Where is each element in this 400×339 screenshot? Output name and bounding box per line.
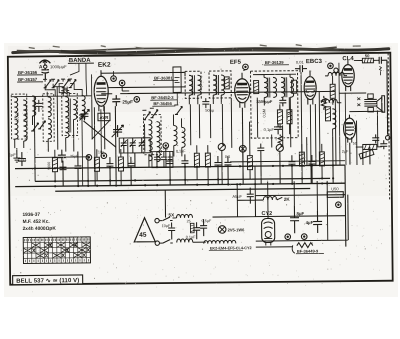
top right decoupling cap xyxy=(378,57,387,76)
tuning gang capacitor 1 xyxy=(79,109,89,120)
svg-text:0,1µF: 0,1µF xyxy=(186,235,197,239)
output transformer xyxy=(357,94,377,112)
vertical wire osc x145 xyxy=(145,124,166,168)
label CL4 xyxy=(342,56,354,62)
vertical wire x345 power xyxy=(344,165,347,246)
vertical wires det to bus xyxy=(282,97,291,147)
speaker field resistor zigzag bottom xyxy=(292,242,324,253)
resistor row b xyxy=(94,149,99,181)
svg-text:BF-36456: BF-36456 xyxy=(153,101,172,106)
svg-text:10µ: 10µ xyxy=(98,150,105,154)
svg-text:2V5-1W6: 2V5-1W6 xyxy=(228,227,246,232)
cap left of pot xyxy=(257,144,264,185)
bus rail top xyxy=(15,165,345,168)
vertical wire x88 xyxy=(87,155,89,185)
oscillator switch contacts xyxy=(142,105,182,120)
cap row c xyxy=(106,157,113,186)
resistor 1M row xyxy=(118,149,123,186)
svg-text:50: 50 xyxy=(365,53,370,58)
vertical wires IFT1 down xyxy=(190,104,222,145)
wire junction dots xyxy=(34,164,334,187)
osc tracking caps cluster xyxy=(152,151,173,167)
wire grid cap to band switch xyxy=(91,71,113,99)
svg-text:5000: 5000 xyxy=(47,162,51,170)
tube EF5 xyxy=(234,69,249,108)
wire banda label down xyxy=(70,63,87,96)
svg-text:EF5: EF5 xyxy=(230,60,242,66)
terminal mid row xyxy=(86,155,92,161)
svg-text:0,02: 0,02 xyxy=(24,113,28,120)
antenna coil box 2 (dashed) xyxy=(43,94,55,152)
dial lamp xyxy=(218,225,245,233)
svg-text:25µF: 25µF xyxy=(70,154,79,158)
line choke bottom xyxy=(177,239,206,243)
RF coupling coil right xyxy=(79,95,86,186)
mains triangle plug xyxy=(134,218,155,242)
resistor 5000 xyxy=(47,150,58,182)
cap between IF cans xyxy=(202,98,209,108)
svg-text:0,3: 0,3 xyxy=(163,147,168,151)
filter cap 8µF xyxy=(290,205,305,233)
interstage choke pair xyxy=(321,99,341,103)
svg-text:1µF: 1µF xyxy=(9,152,17,157)
svg-text:⊙1: ⊙1 xyxy=(21,157,27,162)
osc anode resistor xyxy=(194,145,199,180)
EBC3 grid cap terminal xyxy=(328,63,334,69)
svg-text:50µµ: 50µµ xyxy=(205,109,214,113)
label BF-36139 xyxy=(264,60,289,65)
resistor row j xyxy=(299,144,304,184)
oscillator padder trimmer xyxy=(173,67,181,105)
antenna A terminal xyxy=(39,60,51,70)
line filter cap 2 xyxy=(186,222,201,239)
cap 0.45µF xyxy=(232,188,254,204)
band switch wafer 1 xyxy=(43,79,59,88)
wire EK2 top xyxy=(101,72,185,77)
grid leak resistor CL4 xyxy=(321,96,326,110)
svg-text:25: 25 xyxy=(187,219,191,223)
node AVC xyxy=(134,97,140,103)
row top wire segments xyxy=(35,154,345,164)
long vertical wires EBC3-CL4 xyxy=(339,63,346,166)
tube tuning indicator xyxy=(343,115,355,143)
cap row i xyxy=(288,155,295,184)
svg-text:0,002: 0,002 xyxy=(14,111,19,122)
cap 25µF row xyxy=(70,151,82,186)
antenna coil box 1 (dashed) xyxy=(11,94,27,148)
wire screen rail xyxy=(101,91,335,93)
mains switch bottom xyxy=(159,239,172,243)
label BF-36456 xyxy=(152,101,175,106)
long vertical wires tuner to bus xyxy=(34,96,46,182)
wire pot down xyxy=(279,152,281,183)
tube EBC3 xyxy=(304,70,316,104)
svg-text:EK2: EK2 xyxy=(98,62,111,69)
padder capacitor left xyxy=(9,152,26,166)
switch routing wires xyxy=(45,83,82,96)
EK2 grid cap terminal xyxy=(111,76,117,82)
svg-text:0,1: 0,1 xyxy=(225,155,230,159)
cap row k xyxy=(308,155,315,184)
diode load resistor 2 xyxy=(287,110,292,124)
EF5 grid cap terminal xyxy=(243,64,249,70)
wire EK2 plate rail xyxy=(108,86,185,89)
svg-text:4µF: 4µF xyxy=(306,220,314,225)
svg-text:BELL 537 ∿ ≃ (110 V): BELL 537 ∿ ≃ (110 V) xyxy=(16,278,79,285)
bypass caps right cluster xyxy=(372,134,387,149)
antenna series capacitor 100µµF xyxy=(41,64,67,79)
cap 0.1µF row f xyxy=(176,149,189,185)
bus rail chassis xyxy=(15,183,345,186)
cap row d xyxy=(127,157,134,186)
tube CL4 xyxy=(342,60,355,91)
cap row h xyxy=(224,156,231,185)
svg-text:8µF: 8µF xyxy=(296,211,304,216)
svg-text:CY2: CY2 xyxy=(261,211,272,217)
power box outline xyxy=(165,188,348,248)
vertical wire x68 xyxy=(66,87,68,96)
label EF5 xyxy=(230,60,242,66)
scan speckle noise xyxy=(11,44,391,292)
svg-text:BF-36157: BF-36157 xyxy=(18,77,38,82)
heater chain winding xyxy=(204,240,252,250)
small terminal beside xyxy=(334,68,338,72)
dial cord diagonal 2 xyxy=(92,121,110,140)
mains terminal top xyxy=(155,218,159,222)
label BF-36156 xyxy=(17,70,43,75)
tube EK2 xyxy=(94,70,108,111)
svg-text:2µF: 2µF xyxy=(342,150,349,154)
terminal under 4µF xyxy=(301,234,307,240)
vertical wire x58 xyxy=(56,87,59,150)
svg-text:M.F. 452 Kc.: M.F. 452 Kc. xyxy=(23,219,50,225)
extra vertical wires right section xyxy=(92,71,379,242)
wire EF5 cathode down xyxy=(241,108,244,184)
vertical wires power xyxy=(268,181,318,219)
label EBC3 xyxy=(306,59,323,65)
wires under IFT2 xyxy=(264,97,289,134)
svg-text:BF-36449-9: BF-36449-9 xyxy=(297,248,319,253)
terminal circle right xyxy=(385,136,389,140)
tone resistor diagonal xyxy=(359,150,374,159)
band switch wafer 2 xyxy=(61,79,76,88)
mid coil unboxed xyxy=(31,96,46,131)
resistor 25 in filter xyxy=(187,219,195,233)
mains terminal bottom xyxy=(155,241,159,245)
speaker xyxy=(377,96,385,113)
svg-text:BF-36452-3: BF-36452-3 xyxy=(151,95,174,100)
svg-text:BF-36139: BF-36139 xyxy=(265,60,284,65)
trimmer box row xyxy=(119,138,150,168)
cap EF5 cathode xyxy=(279,97,286,106)
wire IFT2 tops xyxy=(253,74,296,77)
node dot below gang xyxy=(101,153,107,159)
label BF-36381 xyxy=(153,75,178,80)
cap row g xyxy=(214,156,221,185)
line filter cap 1 xyxy=(162,222,176,239)
rectifier CY2 xyxy=(262,218,275,245)
terminal below EF5 xyxy=(239,145,246,152)
bus rail heater xyxy=(55,189,310,192)
line choke top xyxy=(172,214,192,218)
svg-text:0,1µF: 0,1µF xyxy=(264,127,275,132)
detector dashed enclosure xyxy=(250,71,298,138)
svg-text:2K: 2K xyxy=(284,197,291,202)
label EK2 xyxy=(98,62,111,69)
resistor 2K zigzag xyxy=(263,196,290,202)
series resistor zigzag xyxy=(278,134,283,144)
svg-text:1936-37: 1936-37 xyxy=(22,212,40,218)
svg-text:5X: 5X xyxy=(168,212,175,217)
filter cap 4µF xyxy=(305,211,322,233)
svg-text:1M: 1M xyxy=(287,112,291,117)
svg-text:0,01: 0,01 xyxy=(296,60,305,65)
label BANDA xyxy=(68,58,94,64)
wire left column down xyxy=(16,148,18,155)
AVC resistor row xyxy=(205,145,210,185)
EK2 osc grid terminal xyxy=(119,80,125,86)
IFT2 coils left xyxy=(254,77,277,97)
wire EK2 cathode down xyxy=(114,106,117,185)
mains switch top xyxy=(159,217,172,221)
vertical wire x105 xyxy=(103,106,105,149)
coupling cap to EBC3 xyxy=(295,60,307,73)
svg-text:BF-36381: BF-36381 xyxy=(154,75,173,80)
speaker return wire xyxy=(386,115,388,134)
extra top-left wiring xyxy=(12,88,92,97)
label BF-36452-3 xyxy=(150,95,177,100)
resistor U50 top right xyxy=(327,186,343,197)
svg-text:U50: U50 xyxy=(331,186,339,191)
cathode resistor cluster right xyxy=(356,144,382,149)
svg-text:0,5µF: 0,5µF xyxy=(202,219,213,223)
antenna coil box 3 (dashed) xyxy=(62,93,78,151)
schematic frame border xyxy=(8,53,393,285)
oscillator coil box (dashed) xyxy=(143,115,161,162)
wire EK2 cathode column xyxy=(100,109,102,156)
vertical wires EBC3 xyxy=(310,92,320,184)
line filter cap 3 xyxy=(200,219,212,236)
svg-text:EK2-EM4-EF5-CL4-CY2: EK2-EM4-EF5-CL4-CY2 xyxy=(210,246,252,250)
cap row a xyxy=(59,161,66,187)
label BF-36157 xyxy=(17,77,43,82)
EK2 screen bypass cap 25µF xyxy=(112,95,133,106)
svg-text:1000µµF: 1000µµF xyxy=(50,64,67,69)
svg-text:A5µF: A5µF xyxy=(232,194,242,199)
coupling coil stack left of CL4 xyxy=(332,109,336,137)
svg-text:10µF: 10µF xyxy=(162,224,171,228)
volume pot xyxy=(276,144,283,151)
IFT1 box xyxy=(185,71,231,104)
cap row e xyxy=(166,154,173,185)
mid coupling cap 50µµF xyxy=(58,150,66,163)
AVC box under EK2 xyxy=(98,113,110,121)
IFT2 coils right xyxy=(281,77,297,97)
label 3300µµF xyxy=(256,99,273,104)
grid stopper choke xyxy=(325,72,347,76)
right edge vertical wire xyxy=(386,60,389,136)
svg-text:25µF: 25µF xyxy=(122,99,133,104)
wires right lower xyxy=(333,136,370,182)
terminal below U50 xyxy=(336,202,342,208)
scan smudge band along top edge xyxy=(13,47,389,54)
svg-text:0,5M: 0,5M xyxy=(262,109,266,117)
dial cord diagonal xyxy=(84,121,116,148)
oscillator coil pair 2 xyxy=(173,114,185,156)
title box BELL 537 xyxy=(13,275,83,285)
screen resistor row xyxy=(247,122,253,180)
ground chassis left xyxy=(13,155,27,162)
label CY2 xyxy=(261,211,272,217)
wire osc grid xyxy=(122,86,129,91)
pot below IFT1 xyxy=(218,143,225,150)
plate load resistor EBC3 xyxy=(330,76,335,105)
svg-text:50: 50 xyxy=(353,142,357,146)
terminal under 8µF xyxy=(285,234,291,240)
valve data table xyxy=(23,237,90,264)
wire antenna to switch xyxy=(44,78,46,80)
svg-text:2x4h 4000ΩpK: 2x4h 4000ΩpK xyxy=(23,226,57,232)
diode load resistor 1 xyxy=(277,110,282,124)
svg-text:EBC3: EBC3 xyxy=(306,59,323,65)
top right screen resistor 50 xyxy=(354,53,378,63)
junction node osc xyxy=(163,143,169,149)
svg-text:BF-36156: BF-36156 xyxy=(18,70,38,75)
tuning gang capacitor 2 xyxy=(112,125,124,137)
bus rail B+ xyxy=(35,178,330,181)
cap detector 0.1µF xyxy=(264,123,283,134)
resistor row l xyxy=(319,144,324,179)
resistor below EBC3 load xyxy=(325,107,330,121)
